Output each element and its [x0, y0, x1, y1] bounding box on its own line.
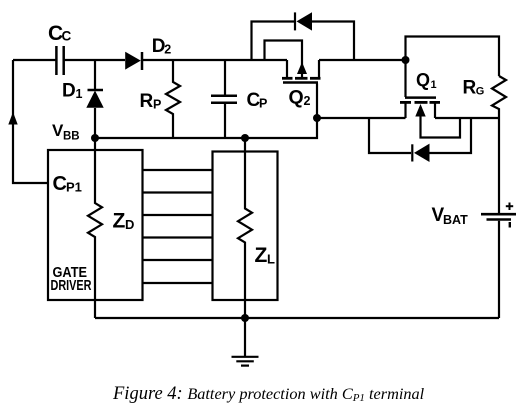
wire top main left segment — [13, 59, 56, 61]
wire Q1 gate node loop to RG — [406, 37, 500, 98]
diode D2 triangle — [125, 52, 141, 70]
transistor Q2 — [282, 60, 321, 118]
wire bus line 3 — [143, 214, 213, 216]
wire bottom rail — [95, 317, 499, 319]
resistor RP — [166, 60, 180, 138]
wire bus line 1 — [143, 169, 213, 171]
svg-text:Z: Z — [255, 244, 268, 267]
wire left outer vertical and CP1 feed — [13, 60, 48, 183]
junction node CP bottom — [241, 134, 249, 142]
resistor RG — [492, 76, 506, 213]
wire Q2 body-diode loop — [252, 22, 295, 61]
svg-text:D: D — [125, 217, 134, 232]
wire bus line 6 — [143, 282, 213, 284]
diode Q1 external triangle — [414, 144, 430, 162]
junction node VBB — [91, 134, 99, 142]
arrow up on left wire — [8, 112, 17, 125]
wire ZD branch through gate driver box — [88, 138, 102, 318]
svg-text:Figure 4: Battery protection w: Figure 4: Battery protection with CP1 te… — [112, 384, 425, 404]
svg-text:C: C — [62, 29, 72, 44]
wire Q1 external diode left leg — [369, 118, 411, 153]
wire top main Q2 drain to Q1 gate node — [319, 59, 406, 61]
diode Q2 body triangle — [297, 12, 313, 30]
plus sign VBAT — [506, 203, 513, 211]
diode Q1 external cathode bar — [411, 144, 413, 161]
junction node ground — [241, 314, 249, 322]
diode D1 — [88, 60, 104, 138]
wire top main between D2 and Q2 — [142, 59, 287, 61]
junction node Q2 gate / Q1 drain — [313, 114, 321, 122]
junction node Q1 gate — [402, 56, 410, 64]
wire Q1 source rail to RG bottom — [435, 117, 499, 119]
wire Q1 external diode right leg — [430, 118, 472, 153]
capacitor CC — [56, 46, 63, 75]
svg-text:G: G — [476, 86, 485, 98]
wire Q2 gate node to Q1 drain — [317, 117, 406, 119]
svg-text:DRIVER: DRIVER — [51, 278, 92, 294]
arrow Q1 body — [415, 104, 425, 117]
svg-text:2: 2 — [164, 43, 171, 57]
wire ZL branch — [238, 138, 252, 318]
svg-text:2: 2 — [304, 94, 311, 108]
wire Q2 gate-source loop — [265, 41, 303, 79]
svg-text:Q: Q — [416, 70, 430, 90]
wire bus line 2 — [143, 191, 213, 193]
svg-text:R: R — [463, 78, 477, 99]
arrow Q2 body — [297, 62, 307, 74]
minus sign VBAT — [509, 222, 511, 228]
box gate driver — [48, 150, 143, 300]
wire bus line 5 — [143, 259, 213, 261]
box load ZL — [213, 152, 278, 301]
battery VBAT — [481, 214, 516, 318]
ground — [232, 318, 259, 366]
capacitor CP — [211, 60, 237, 138]
wire Q2 body-diode loop right — [312, 22, 354, 61]
diode Q2 body cathode bar — [294, 12, 296, 30]
svg-text:P: P — [259, 97, 267, 111]
wire bus line 4 — [143, 236, 213, 238]
svg-text:P1: P1 — [66, 180, 82, 195]
transistor Q1 — [400, 98, 460, 138]
svg-text:C: C — [53, 173, 67, 195]
wire VBB rail — [95, 118, 317, 138]
wire top main between Cc and D2 — [64, 59, 125, 61]
svg-text:Z: Z — [113, 210, 126, 233]
svg-text:D: D — [62, 81, 76, 102]
svg-text:R: R — [140, 91, 154, 112]
svg-text:P: P — [153, 98, 161, 112]
diode D2 — [141, 52, 144, 70]
svg-text:L: L — [267, 252, 275, 267]
svg-text:1: 1 — [431, 79, 437, 91]
svg-text:Q: Q — [289, 87, 304, 109]
svg-text:1: 1 — [76, 87, 83, 101]
diode D1 triangle — [86, 91, 103, 108]
svg-text:BB: BB — [63, 131, 80, 143]
svg-text:BAT: BAT — [443, 213, 468, 227]
